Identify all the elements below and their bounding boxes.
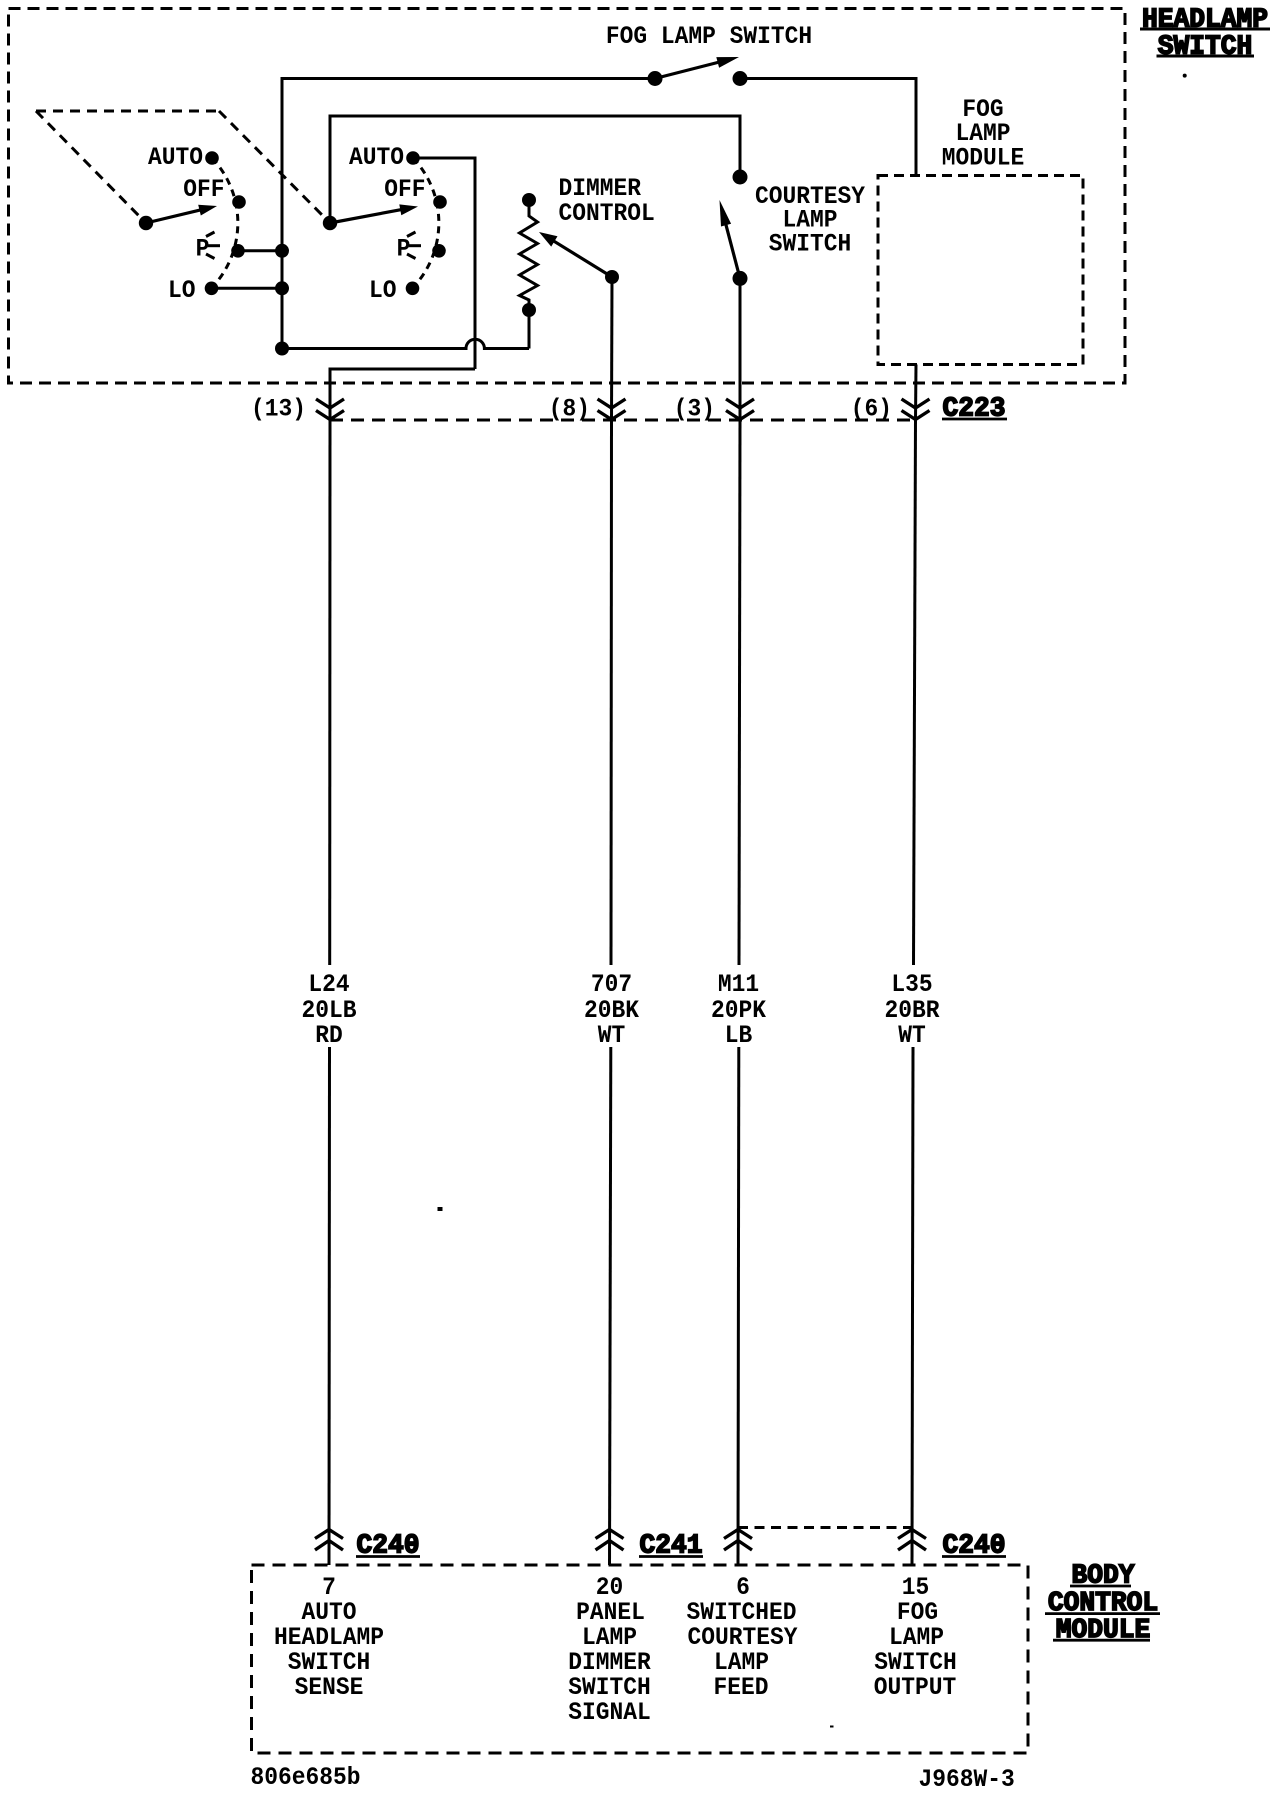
rotary switch SW-B dashed contact arc: [413, 158, 439, 288]
wire LO contact to bus: [212, 287, 283, 290]
resistor R1 dimmer control rheostat: [520, 193, 538, 349]
rotary switch SW-A dashed contact arc: [212, 158, 238, 288]
connector pin (13) of C223: [251, 394, 344, 423]
contact P (right switch): [432, 244, 446, 258]
label C240 left: [356, 1532, 420, 1562]
body control module dashed box: [252, 1565, 1029, 1753]
connector C240 pin 7 chevron: [315, 1530, 343, 1551]
svg-text:806e685b: 806e685b: [251, 1763, 361, 1792]
wire bus bottom with jump over: [282, 339, 529, 348]
label HEADLAMP SWITCH title: [1140, 6, 1270, 63]
pin 6 SWITCHED COURTESY LAMP FEED: [687, 1573, 798, 1702]
contact AUTO (right switch): [406, 151, 420, 165]
wiper blade (left switch): [139, 205, 217, 230]
wire 707 lower segment: [610, 1047, 611, 1565]
wire SW-B wiper to courtesy lamp switch: [330, 116, 740, 223]
svg-text:MODULE: MODULE: [942, 144, 1025, 173]
label COURTESY LAMP SWITCH: [755, 182, 865, 259]
svg-text:L35: L35: [891, 970, 932, 999]
svg-text:FOG LAMP SWITCH: FOG LAMP SWITCH: [606, 22, 812, 51]
label DIMMER CONTROL: [559, 174, 655, 228]
wire L24 upper segment: [328, 420, 331, 966]
svg-text:RD: RD: [315, 1021, 343, 1050]
contact AUTO (left switch): [205, 151, 219, 165]
label wire L24 20LB RD: [302, 970, 357, 1050]
label LO (left switch): [168, 276, 196, 305]
connector pin (6) of C223: [851, 394, 930, 423]
svg-text:P: P: [397, 235, 411, 264]
svg-text:AUTO: AUTO: [349, 143, 404, 172]
speck artifact 2: [1183, 74, 1187, 78]
fog lamp module dashed box: [878, 176, 1083, 365]
svg-text:P: P: [196, 235, 210, 264]
svg-text:AUTO: AUTO: [148, 143, 203, 172]
switch S2 courtesy lamp switch: [720, 170, 748, 286]
label OFF (left switch): [183, 175, 224, 204]
svg-text:OUTPUT: OUTPUT: [874, 1673, 957, 1702]
wire courtesy switch to connector 3: [739, 278, 742, 420]
svg-text:FEED: FEED: [714, 1673, 769, 1702]
label C223: [942, 395, 1007, 425]
wire L24 lower segment: [328, 1047, 332, 1565]
svg-text:SWITCH: SWITCH: [1158, 33, 1253, 63]
svg-text:SENSE: SENSE: [295, 1673, 364, 1702]
wire M11 upper segment: [739, 420, 740, 966]
connector pin (8) of C223: [549, 394, 626, 423]
svg-text:J968W-3: J968W-3: [919, 1765, 1015, 1794]
contact OFF (right switch): [433, 195, 447, 209]
pin 7 AUTO HEADLAMP SWITCH SENSE: [274, 1573, 384, 1702]
connector pin 6 chevron: [724, 1530, 752, 1551]
label LO (right switch): [369, 276, 397, 305]
contact LO (right switch): [406, 282, 420, 296]
junction node P on bus: [275, 244, 289, 258]
svg-text:CONTROL: CONTROL: [559, 199, 655, 228]
wire L35 lower segment: [912, 1047, 913, 1565]
dashed link between pin 6 and pin 15 connectors: [738, 1526, 912, 1529]
label wire M11 20PK LB: [711, 970, 766, 1050]
label AUTO (left switch): [148, 143, 203, 172]
switch S1 fog lamp switch: [648, 57, 748, 86]
pin 15 FOG LAMP SWITCH OUTPUT: [874, 1573, 957, 1702]
label P park lamp symbol (left switch): [196, 232, 220, 264]
wire P contact to bus: [238, 249, 282, 252]
wire SW-B AUTO contact down to node: [413, 158, 475, 369]
svg-text:(8): (8): [549, 394, 590, 423]
svg-text:M11: M11: [718, 970, 759, 999]
svg-text:(13): (13): [251, 394, 306, 423]
label FOG LAMP MODULE: [942, 95, 1025, 173]
wiper arrow of dimmer control: [539, 232, 619, 284]
label wire 707 20BK WT: [584, 970, 639, 1050]
svg-text:707: 707: [591, 970, 632, 999]
svg-text:OFF: OFF: [384, 175, 425, 204]
label AUTO (right switch): [349, 143, 404, 172]
contact P (left switch): [231, 244, 245, 258]
junction node at bus bottom corner: [275, 342, 289, 356]
svg-text:LO: LO: [168, 276, 196, 305]
reference J968W-3: [919, 1765, 1015, 1794]
label wire L35 20BR WT: [885, 970, 940, 1050]
label P park lamp symbol (right switch): [397, 232, 421, 264]
svg-text:WT: WT: [598, 1021, 626, 1050]
svg-text:SWITCH: SWITCH: [769, 229, 852, 258]
reference 806e685b: [251, 1763, 361, 1792]
label C240 right: [942, 1532, 1006, 1562]
connector C223 dashed line: [330, 419, 915, 422]
wire from fog lamp switch to fog lamp module: [740, 79, 916, 176]
junction node LO on bus: [275, 281, 289, 295]
wire dimmer wiper to connector 8: [610, 277, 614, 420]
wire 707 upper segment: [610, 420, 614, 966]
svg-text:(6): (6): [851, 394, 892, 423]
connector C240 pin 15 chevron: [898, 1530, 926, 1551]
wire M11 lower segment: [737, 1047, 741, 1565]
contact OFF (left switch): [232, 195, 246, 209]
svg-text:OFF: OFF: [183, 175, 224, 204]
headlamp switch assembly dashed box: [9, 9, 1126, 384]
svg-text:(3): (3): [674, 394, 715, 423]
svg-text:SIGNAL: SIGNAL: [568, 1698, 651, 1727]
svg-text:HEADLAMP: HEADLAMP: [1142, 6, 1268, 36]
wire L35 upper segment: [914, 420, 916, 966]
speck artifact 1: [438, 1207, 443, 1211]
pin 20 PANEL LAMP DIMMER SWITCH SIGNAL: [568, 1573, 651, 1727]
svg-text:LB: LB: [725, 1021, 753, 1050]
label OFF (right switch): [384, 175, 425, 204]
contact LO (left switch): [205, 282, 219, 296]
wire node to connector 13: [330, 369, 475, 420]
label C241: [639, 1532, 703, 1562]
connector C241 pin 20 chevron: [596, 1530, 624, 1551]
svg-text:L24: L24: [308, 970, 349, 999]
wire from headlamp switch bus to fog lamp switch: [282, 79, 655, 349]
svg-text:LO: LO: [369, 276, 397, 305]
svg-text:WT: WT: [898, 1021, 926, 1050]
label FOG LAMP SWITCH: [606, 22, 812, 51]
connector pin (3) of C223: [674, 394, 754, 423]
mechanical linkage dashed parallelogram: [36, 111, 330, 223]
wiper blade (right switch): [323, 204, 418, 230]
speck artifact 3: [830, 1726, 834, 1728]
label BODY CONTROL MODULE: [1045, 1562, 1160, 1646]
wire fog lamp module to connector 6: [914, 365, 918, 421]
